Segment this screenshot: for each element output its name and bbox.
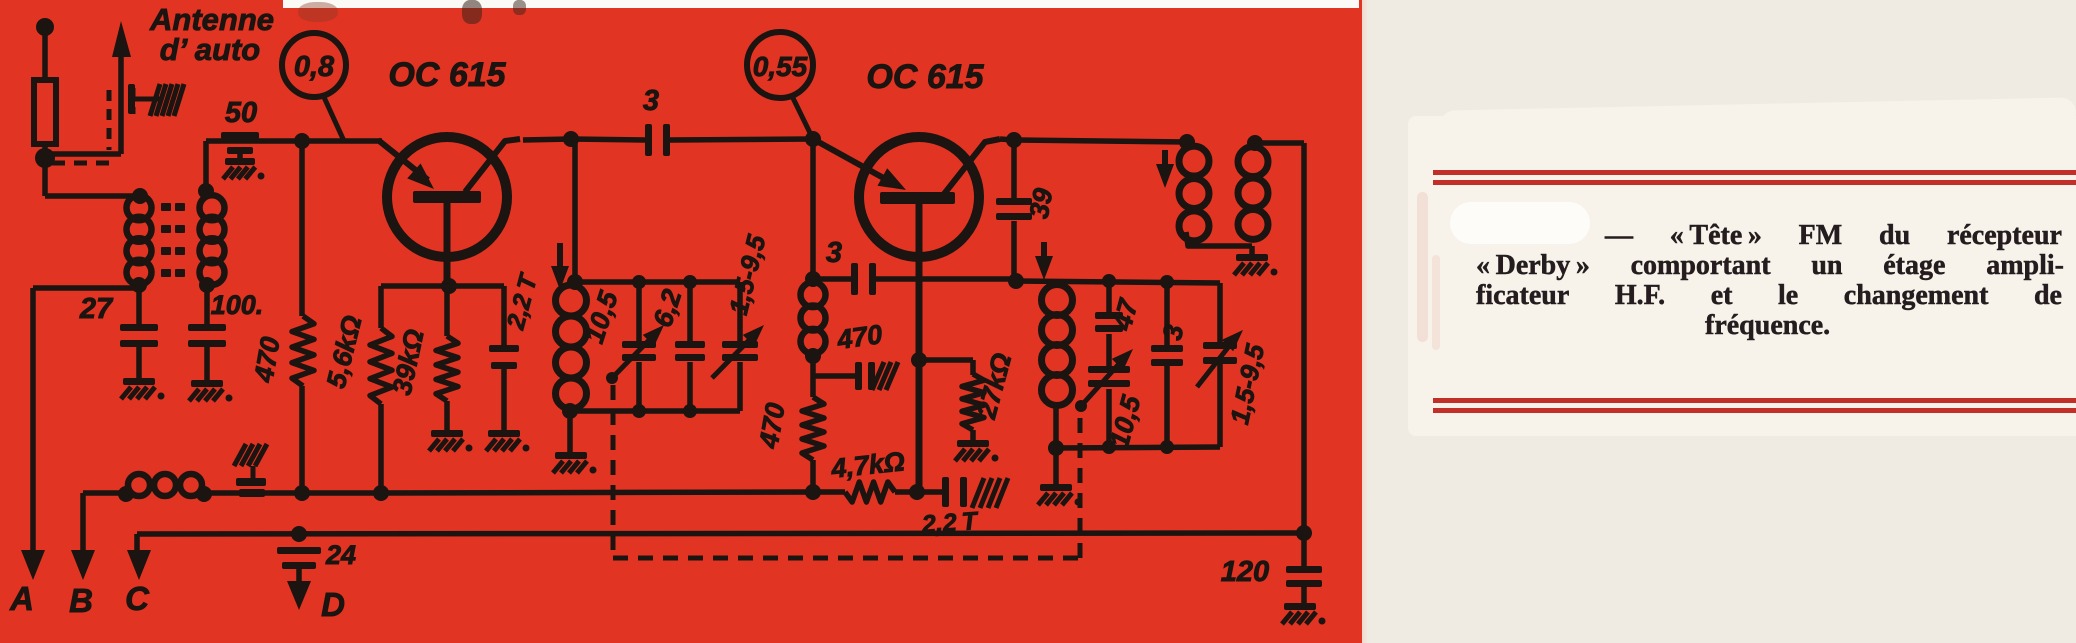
svg-text:C: C xyxy=(125,580,150,617)
svg-text:27kΩ: 27kΩ xyxy=(971,350,1017,423)
svg-text:B: B xyxy=(69,582,93,619)
svg-text:100.: 100. xyxy=(211,290,264,320)
svg-text:470: 470 xyxy=(248,335,286,386)
svg-text:3: 3 xyxy=(643,85,659,117)
svg-text:A: A xyxy=(9,580,34,617)
svg-text:120: 120 xyxy=(1221,556,1269,588)
svg-text:50: 50 xyxy=(225,97,257,129)
svg-text:470: 470 xyxy=(834,319,884,355)
svg-text:4,7kΩ: 4,7kΩ xyxy=(829,446,906,484)
svg-text:470: 470 xyxy=(753,401,791,452)
svg-text:OC 615: OC 615 xyxy=(866,58,984,96)
svg-text:24: 24 xyxy=(325,540,356,570)
svg-text:D: D xyxy=(321,586,345,623)
svg-text:3: 3 xyxy=(826,237,842,269)
svg-text:3: 3 xyxy=(1157,322,1189,342)
svg-text:2,2 T: 2,2 T xyxy=(501,269,543,333)
svg-text:5,6kΩ: 5,6kΩ xyxy=(321,312,368,391)
svg-text:27: 27 xyxy=(79,293,114,325)
svg-text:1,5-9,5: 1,5-9,5 xyxy=(723,231,772,317)
svg-text:0,8: 0,8 xyxy=(294,51,335,83)
svg-text:39: 39 xyxy=(1024,186,1059,221)
svg-text:1,5-9,5: 1,5-9,5 xyxy=(1224,341,1270,427)
svg-text:6,2: 6,2 xyxy=(647,286,687,331)
svg-text:d’ auto: d’ auto xyxy=(160,32,260,67)
svg-text:0,55: 0,55 xyxy=(753,51,808,82)
svg-text:OC 615: OC 615 xyxy=(388,56,506,94)
